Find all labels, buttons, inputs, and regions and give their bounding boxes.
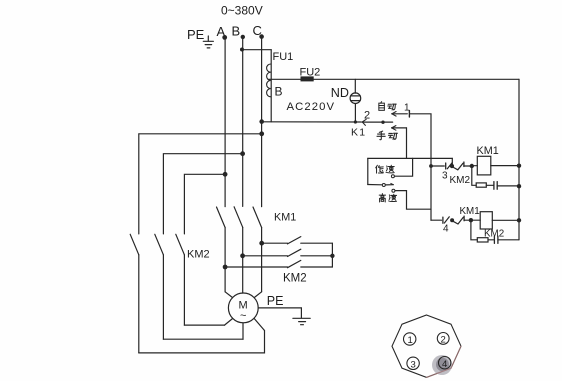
wire B branch left <box>163 154 242 234</box>
wire to KM1 coil <box>472 165 478 167</box>
transformer B winding <box>267 50 272 122</box>
node C branch junction <box>259 131 264 136</box>
node C terminal <box>259 34 264 39</box>
node outer bus row3 <box>517 164 521 168</box>
wire motor bottom row1 <box>184 324 224 326</box>
wire phase C vertical <box>261 37 263 207</box>
svg-text:4: 4 <box>442 359 447 370</box>
node right row2 junction <box>240 253 245 258</box>
wire phase B vertical <box>242 37 244 207</box>
node A terminal <box>222 35 227 40</box>
pin 1 <box>404 333 416 346</box>
contact KM2 right row3 <box>225 260 332 267</box>
wire motor bottom row3 <box>139 331 265 353</box>
wire selector feed horizontal <box>368 157 453 159</box>
wire coil KM2 to outer bus <box>492 219 519 221</box>
contact KM2 aux NC <box>453 162 470 170</box>
wire motor PE <box>258 308 301 318</box>
wire selector common drop <box>367 158 369 184</box>
contact KM2 left phase 3 <box>176 234 185 325</box>
pin 2 <box>437 333 449 346</box>
svg-text:PE: PE <box>267 294 284 308</box>
node row3 coil junction <box>470 164 474 168</box>
ground motor PE <box>293 318 310 324</box>
label disu (low speed) <box>376 165 394 173</box>
snubber R2 <box>471 220 494 242</box>
connector socket octagon <box>392 315 461 377</box>
smudge behind pin 4 <box>432 355 452 375</box>
node high-speed terminal <box>392 189 395 192</box>
node A branch junction <box>223 172 228 177</box>
wire FU2 to right bus <box>313 78 519 80</box>
svg-text:K1: K1 <box>351 127 366 139</box>
svg-text:2: 2 <box>441 335 446 346</box>
wire phase A vertical <box>224 37 226 206</box>
contact KM1 aux NC <box>453 216 470 224</box>
wire low speed row <box>395 158 413 176</box>
wire outer bus <box>518 79 520 240</box>
wire A branch left <box>184 174 225 234</box>
wire motor bottom row2 <box>163 338 243 340</box>
wire row3 start <box>431 165 444 167</box>
node right row1 junction <box>259 241 264 246</box>
wire B to transformer <box>242 49 271 51</box>
svg-text:KM2: KM2 <box>450 175 471 186</box>
svg-text:3: 3 <box>442 171 448 182</box>
node B terminal <box>241 35 245 39</box>
wire right star bus <box>331 243 333 267</box>
node outer bus row4 <box>517 218 521 222</box>
svg-text:AC220V: AC220V <box>287 101 336 113</box>
contact KM2 right row2 <box>243 249 333 256</box>
label shoudong (manual) <box>377 131 398 140</box>
node star bus mid <box>330 254 334 258</box>
wire auto to inner bus <box>409 114 431 220</box>
svg-text:4: 4 <box>443 224 449 235</box>
node row4 mid junction <box>450 218 454 222</box>
watermark tint <box>427 346 462 377</box>
svg-text:PE: PE <box>187 27 205 42</box>
node row3 mid junction <box>450 164 454 168</box>
node row4 coil junction <box>469 218 473 222</box>
label zidong (auto) <box>379 102 396 111</box>
motor M <box>225 292 265 339</box>
switch K1 auto throw <box>392 112 408 117</box>
svg-text:0~380V: 0~380V <box>221 4 263 18</box>
svg-text:2: 2 <box>364 110 370 122</box>
connector pin 3 <box>446 163 453 169</box>
node outer bus snubber1 <box>517 184 521 188</box>
ground PE top <box>203 36 213 48</box>
wire high speed row <box>395 191 431 210</box>
contact KM2 right row1 <box>262 237 333 244</box>
svg-text:3: 3 <box>411 360 416 371</box>
node B branch junction <box>240 151 245 156</box>
fuse FU2 <box>301 77 313 81</box>
coil KM1 <box>477 156 491 175</box>
node inner bus / row3 junction <box>429 164 433 168</box>
svg-text:KM2: KM2 <box>187 249 210 261</box>
snubber C1 <box>494 182 519 190</box>
svg-text:~: ~ <box>240 310 246 322</box>
wire row4 start <box>431 219 442 221</box>
switch K1 manual throw <box>392 126 407 131</box>
wire AC220V rail <box>262 121 361 123</box>
wire low speed to pin3 row <box>451 158 453 164</box>
wire manual down to speed selector <box>406 128 408 158</box>
node right row3 junction <box>223 265 228 270</box>
contact KM2 left phase 1 <box>130 234 139 353</box>
svg-text:ND: ND <box>331 86 349 100</box>
contact KM1 phase C <box>253 207 262 292</box>
node low-speed terminal <box>391 175 394 178</box>
lamp ND <box>350 79 361 123</box>
pin 3 <box>407 357 419 370</box>
svg-text:1: 1 <box>404 103 410 114</box>
snubber C2 <box>494 236 519 243</box>
connector pin 2 <box>362 119 393 125</box>
label gaosu (high speed) <box>379 194 396 202</box>
svg-text:B: B <box>275 85 283 99</box>
svg-text:KM1: KM1 <box>477 145 499 157</box>
svg-text:KM1: KM1 <box>460 206 480 217</box>
contact KM1 phase B <box>234 207 243 293</box>
svg-text:KM2: KM2 <box>283 273 307 285</box>
node C-rail junction <box>259 119 264 124</box>
svg-text:B: B <box>232 24 241 39</box>
wire to KM2 coil <box>471 219 480 221</box>
svg-text:1: 1 <box>408 335 413 346</box>
contact KM2 left phase 2 <box>155 234 164 339</box>
contact KM1 phase A <box>217 207 226 292</box>
wire C branch left <box>139 134 262 234</box>
pin 4 <box>439 357 451 371</box>
coil KM2 <box>480 212 492 229</box>
connector pin 4 <box>443 217 449 223</box>
wire FU2 feed <box>269 78 301 80</box>
snubber R1 <box>472 166 494 187</box>
connector pin 1 <box>408 111 410 117</box>
switch speed selector blade <box>368 183 394 186</box>
svg-text:FU1: FU1 <box>273 51 294 63</box>
wire coil KM1 to outer bus <box>491 165 519 167</box>
svg-text:KM1: KM1 <box>274 212 296 224</box>
node B-transformer junction <box>240 48 244 52</box>
